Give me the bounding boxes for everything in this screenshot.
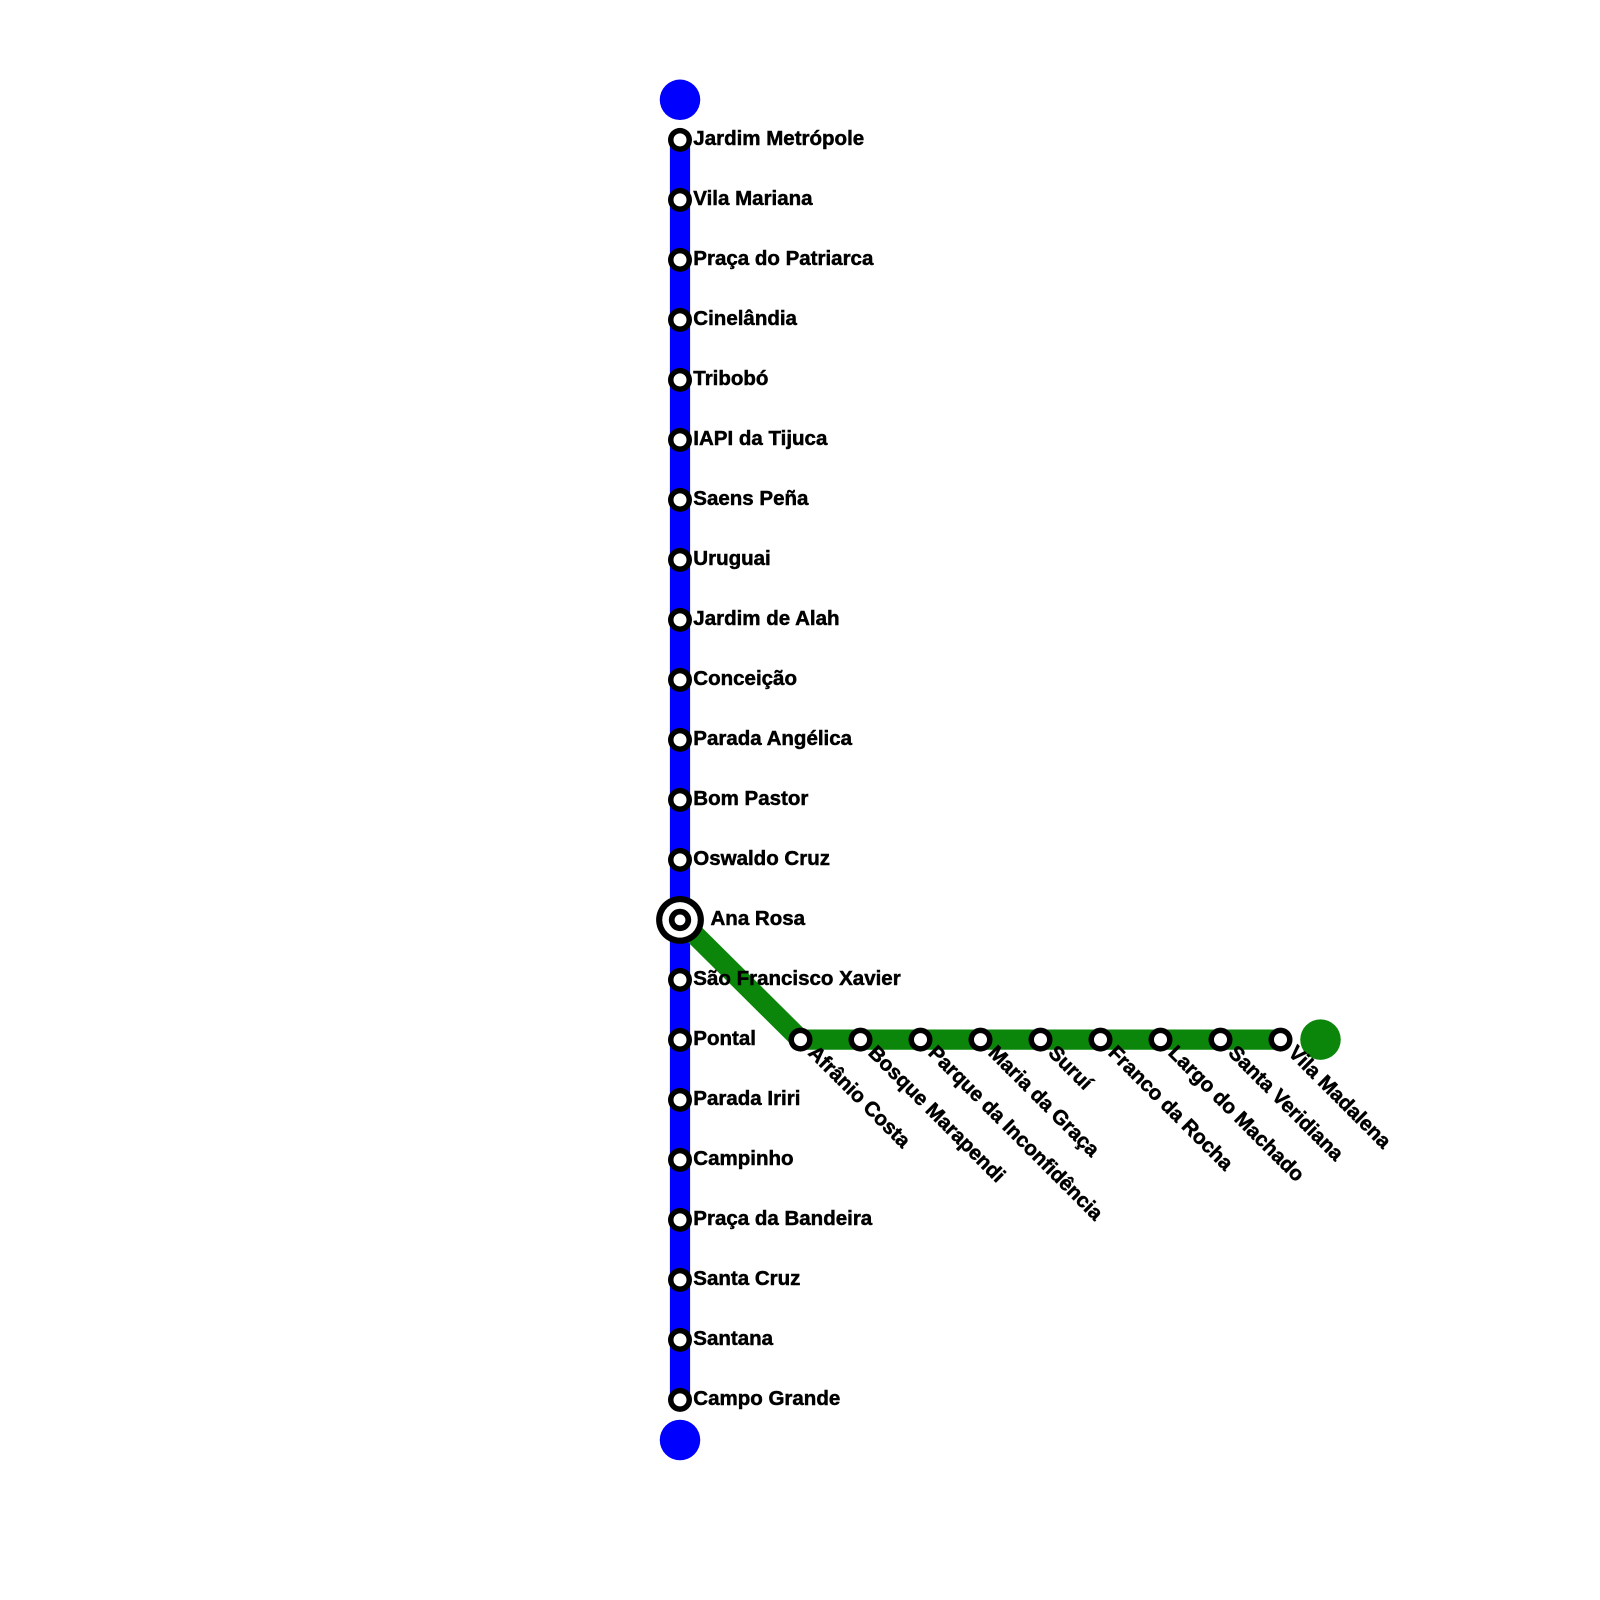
svg-text:IAPI da Tijuca: IAPI da Tijuca <box>693 427 828 450</box>
station Jardim Metrópole <box>668 127 864 152</box>
svg-text:Conceição: Conceição <box>693 667 797 690</box>
station Praça do Patriarca <box>668 247 874 272</box>
station São Francisco Xavier <box>668 967 901 992</box>
svg-text:Parada Angélica: Parada Angélica <box>693 727 852 750</box>
station Maria da Graça <box>969 1028 1105 1162</box>
svg-text:Jardim de Alah: Jardim de Alah <box>693 607 839 630</box>
station Largo do Machado <box>1149 1028 1309 1187</box>
station Suruí <box>1029 1028 1098 1096</box>
station Parada Angélica <box>668 727 853 752</box>
svg-text:São Francisco Xavier: São Francisco Xavier <box>693 967 900 990</box>
station Oswaldo Cruz <box>668 847 830 872</box>
svg-text:Praça da Bandeira: Praça da Bandeira <box>693 1207 872 1230</box>
green terminal dot <box>1300 1019 1341 1060</box>
station Campo Grande <box>668 1387 840 1412</box>
station Ana Rosa (interchange) <box>656 896 806 944</box>
station IAPI da Tijuca <box>668 427 828 452</box>
blue terminal dot top <box>660 80 701 121</box>
station Cinelândia <box>668 307 798 332</box>
station Vila Mariana <box>668 187 813 212</box>
station Tribobó <box>668 367 768 392</box>
station Santana <box>668 1327 774 1352</box>
station Bom Pastor <box>668 787 808 812</box>
svg-text:Uruguai: Uruguai <box>693 547 770 570</box>
station Uruguai <box>668 547 771 572</box>
svg-text:Jardim Metrópole: Jardim Metrópole <box>693 127 864 150</box>
svg-text:Praça do Patriarca: Praça do Patriarca <box>693 247 874 270</box>
svg-text:Pontal: Pontal <box>693 1027 756 1050</box>
svg-text:Cinelândia: Cinelândia <box>693 307 797 330</box>
station Franco da Rocha <box>1089 1028 1238 1176</box>
station Parada Iriri <box>668 1087 800 1112</box>
station Pontal <box>668 1027 756 1052</box>
svg-text:Parada Iriri: Parada Iriri <box>693 1087 800 1110</box>
blue line <box>670 140 690 1400</box>
station Campinho <box>668 1147 794 1172</box>
svg-text:Ana Rosa: Ana Rosa <box>711 907 806 930</box>
station Jardim de Alah <box>668 607 840 632</box>
station Afrânio Costa <box>789 1028 916 1153</box>
svg-text:Saens Peña: Saens Peña <box>693 487 809 510</box>
svg-text:Santa Cruz: Santa Cruz <box>693 1267 800 1290</box>
svg-text:Tribobó: Tribobó <box>693 367 768 390</box>
svg-text:Bom Pastor: Bom Pastor <box>693 787 808 810</box>
blue terminal dot bottom <box>660 1420 701 1461</box>
station Praça da Bandeira <box>668 1207 873 1232</box>
svg-text:Campo Grande: Campo Grande <box>693 1387 840 1410</box>
svg-text:Vila Mariana: Vila Mariana <box>693 187 813 210</box>
station Conceição <box>668 667 797 692</box>
station Parque da Inconfidência <box>909 1028 1108 1226</box>
green line <box>680 920 1281 1040</box>
station Santa Veridiana <box>1209 1028 1349 1166</box>
station Saens Peña <box>668 487 809 512</box>
svg-text:Campinho: Campinho <box>693 1147 793 1170</box>
station Bosque Marapendi <box>849 1028 1010 1188</box>
station Vila Madalena <box>1269 1028 1396 1154</box>
svg-text:Oswaldo Cruz: Oswaldo Cruz <box>693 847 830 870</box>
station Santa Cruz <box>668 1267 800 1292</box>
svg-text:Santana: Santana <box>693 1327 773 1350</box>
